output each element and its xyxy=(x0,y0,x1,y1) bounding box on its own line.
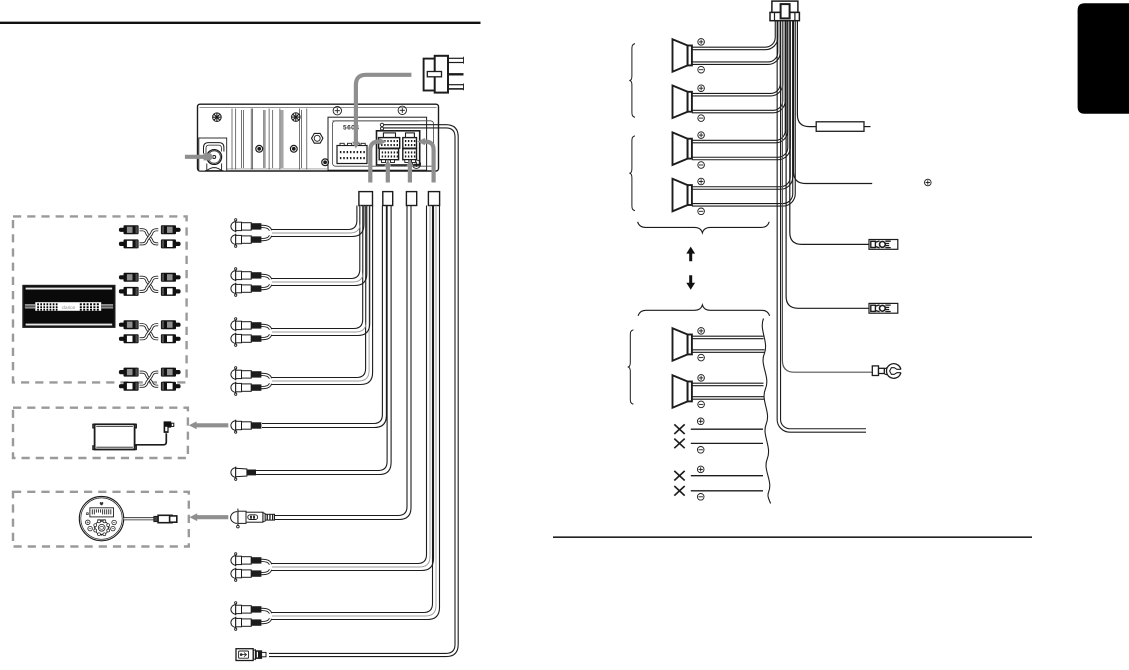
speaker 6 xyxy=(673,375,688,408)
RCA female jack 3b xyxy=(231,334,236,344)
torn-edge wavy line xyxy=(762,319,770,504)
RCA female pair 5 Y-split xyxy=(261,560,271,564)
marine remote connector xyxy=(231,512,238,524)
male RCA plug xyxy=(176,370,181,374)
harness connector shell xyxy=(772,1,798,12)
speaker 1 plus symbol xyxy=(698,39,705,46)
spade wire 2 xyxy=(786,21,869,309)
USB extension cable wire xyxy=(269,125,458,657)
interface adapter unit xyxy=(95,424,135,449)
speaker 3 minus symbol xyxy=(698,162,705,169)
speaker 4 plus symbol xyxy=(698,178,705,185)
speaker 6 (+) wire xyxy=(692,382,764,384)
gray power lead from top into ISO connector xyxy=(356,75,412,143)
speaker 5 (+) wire xyxy=(692,335,764,337)
speaker 4 (+) wire xyxy=(692,21,790,187)
cable connector block 1 xyxy=(359,192,373,206)
interface adapter right-angle plug xyxy=(164,421,172,433)
arrow into marine remote box xyxy=(197,515,228,519)
speaker 1 minus symbol xyxy=(698,66,705,73)
chassis screw C (round) xyxy=(256,145,263,152)
left connector feet xyxy=(382,160,386,163)
speaker 2 (+) wire xyxy=(692,21,780,94)
extension cable crossing wires xyxy=(140,325,159,339)
rear connector recess panel xyxy=(328,117,427,170)
RCA pair cable 1 wire xyxy=(271,206,357,230)
unused speaker wire 1 xyxy=(691,428,763,430)
panel screw 3 xyxy=(412,160,420,168)
marine remote side button 1 xyxy=(86,520,91,525)
unused speaker wire 3 xyxy=(691,475,763,477)
unused speaker wire 2 xyxy=(691,442,763,444)
X mark 2 xyxy=(674,439,684,449)
speaker 3 (-) wire xyxy=(692,21,788,158)
unterminated harness wire xyxy=(777,21,866,432)
male RCA plug xyxy=(176,323,181,327)
male RCA plug xyxy=(176,337,181,341)
RCA female jack 6b xyxy=(231,618,236,628)
RCA female jack 6a xyxy=(231,605,236,615)
amplifier front label band xyxy=(35,302,101,311)
panel screw 1 xyxy=(333,107,341,115)
svg-text:clarion: clarion xyxy=(62,305,76,310)
speaker 1 (+) wire xyxy=(692,21,775,47)
amplifier connector dots left xyxy=(37,303,39,305)
male RCA plug xyxy=(176,242,181,246)
speaker 4 xyxy=(673,179,688,212)
marine remote connector wire xyxy=(275,206,408,516)
speaker 2 xyxy=(673,86,688,119)
swap arrow down xyxy=(686,275,695,290)
male RCA plug xyxy=(119,242,124,246)
dashed box: interface adapter xyxy=(13,408,188,458)
RCA female jack 4b xyxy=(231,383,236,393)
unused wire symbol A plus xyxy=(697,418,704,425)
marine remote side button 2 xyxy=(88,526,93,531)
swap arrow up xyxy=(686,247,695,262)
gray lead 3 xyxy=(408,166,412,183)
male RCA plug xyxy=(176,228,181,232)
cable connector block 3 xyxy=(406,192,416,206)
cable connector block 4 xyxy=(428,192,439,206)
speaker 3 xyxy=(673,132,688,165)
speaker 3 (+) wire xyxy=(692,21,785,141)
RCA pair cable 2 center conductor line xyxy=(272,206,363,283)
speaker 3 plus symbol xyxy=(698,132,705,139)
RCA female jack 5b xyxy=(231,569,236,579)
fuse holder xyxy=(816,122,864,132)
dashed box: RCA cable kit xyxy=(13,216,187,382)
upper group underbrace xyxy=(638,222,770,233)
head unit inner top edge line xyxy=(200,107,437,109)
chassis screw A (star) xyxy=(213,113,222,122)
chassis hex nut xyxy=(312,133,323,143)
RCA female jack 5a xyxy=(231,556,236,566)
marine remote control body xyxy=(79,496,123,540)
speaker 6 minus symbol xyxy=(698,401,705,408)
left 10-pin connector on unit xyxy=(383,133,395,138)
RCA female jack 1a xyxy=(231,222,236,232)
harness connector latch tab xyxy=(781,4,790,18)
extension cable crossing wires xyxy=(140,230,159,244)
wired-remote mini plug wire xyxy=(256,206,388,471)
speaker 4 (-) wire xyxy=(692,21,793,204)
RCA pair cable 3 wire xyxy=(271,206,363,329)
RCA female jack 2b xyxy=(231,284,236,294)
dashed box: marine remote unit xyxy=(13,492,189,547)
spade terminal 1 xyxy=(869,240,898,250)
interface adapter cord xyxy=(135,433,167,445)
male RCA plug xyxy=(119,289,124,293)
speaker 5 (-) wire xyxy=(692,349,765,351)
extension cable crossing wires xyxy=(140,277,159,291)
male RCA plug xyxy=(119,384,124,388)
single RCA cable wire xyxy=(262,206,382,424)
main ISO 16-pin connector on unit xyxy=(337,146,367,164)
marine remote side button 4 xyxy=(111,526,116,531)
speaker 4 minus symbol xyxy=(698,208,705,215)
chassis heatsink fins xyxy=(231,109,233,170)
RCA female pair 6 Y-split xyxy=(261,609,271,613)
speaker 2 (-) wire xyxy=(692,21,783,111)
RCA pair cable 4 wire xyxy=(271,206,366,378)
right 10-pin connector on unit xyxy=(406,133,415,138)
brace speakers 1-2 xyxy=(629,44,635,118)
RCA female jack 3a xyxy=(231,321,236,331)
RCA pair cable 2 wire xyxy=(271,206,360,279)
amplifier left gray stub xyxy=(25,304,35,309)
RCA female jack 1b xyxy=(231,235,236,245)
USB extension cable terminal rings xyxy=(380,123,383,126)
gray lead 4 (to right connector) xyxy=(424,142,433,183)
right connector feet xyxy=(405,160,409,163)
speaker 5 minus symbol xyxy=(698,354,705,361)
antenna jack base xyxy=(205,164,223,171)
speaker 5 plus symbol xyxy=(698,328,705,335)
X mark 1 xyxy=(674,424,684,434)
RCA female pair 3 Y-split xyxy=(261,325,271,329)
speaker 6 (-) wire xyxy=(692,396,765,398)
marine remote cord connector xyxy=(154,516,158,521)
amplifier right gray stub xyxy=(101,304,113,309)
vehicle ISO connector (top) xyxy=(424,59,436,91)
brace speakers 5-6 xyxy=(628,330,634,404)
hideaway amplifier unit xyxy=(23,286,115,328)
fuse wire xyxy=(797,21,816,127)
RCA female jack 2a xyxy=(231,271,236,281)
speaker 1 (-) wire xyxy=(692,21,778,62)
RCA female jack 4a xyxy=(231,370,236,380)
male RCA plug xyxy=(119,370,124,374)
amplifier connector dots right xyxy=(80,303,82,305)
unused wire symbol B minus xyxy=(697,447,704,454)
spade terminal 2 xyxy=(869,303,898,313)
marine remote logo xyxy=(100,502,104,506)
unused wire symbol C plus xyxy=(697,466,704,473)
single RCA female jack xyxy=(231,421,236,431)
male RCA plug xyxy=(119,228,124,232)
speaker 1 xyxy=(673,39,688,71)
RCA pair cable 6 center conductor line xyxy=(272,206,436,617)
speaker 2 minus symbol xyxy=(698,115,705,122)
fuse wire stub xyxy=(864,126,871,128)
male RCA plug xyxy=(119,323,124,327)
gray lead 1 (to CeNET connector) xyxy=(370,142,379,183)
speaker 6 plus symbol xyxy=(698,375,705,382)
dual DIN connector frame xyxy=(377,131,420,165)
RCA pair cable 5 wire xyxy=(271,206,427,564)
head unit rear chassis xyxy=(198,104,439,171)
chassis screw E (phillips) xyxy=(322,159,329,166)
marine remote button pad xyxy=(95,521,109,535)
chassis screw B (star) xyxy=(292,113,301,122)
plus symbol near accessory wire xyxy=(925,179,932,186)
top rule line xyxy=(0,22,481,24)
RCA pair cable 6 wire xyxy=(271,206,433,613)
marine remote side button 3 xyxy=(112,520,117,525)
brace speakers 3-4 xyxy=(629,136,635,211)
RCA pair cable 5 center conductor line xyxy=(272,206,430,568)
accessory wire (+) xyxy=(794,21,873,184)
marine remote cord xyxy=(124,517,154,520)
male RCA plug xyxy=(176,289,181,293)
panel screw 2 xyxy=(398,106,406,114)
spade wire 1 xyxy=(790,21,869,245)
RCA female pair 4 Y-split xyxy=(261,374,271,378)
speaker 2 plus symbol xyxy=(698,85,705,92)
antenna lead arrow xyxy=(185,155,204,159)
RCA female pair 1 Y-split xyxy=(261,226,271,230)
antenna bracket handle xyxy=(204,143,224,154)
male RCA plug xyxy=(176,275,181,279)
marine remote small indicator xyxy=(87,513,89,515)
male RCA plug xyxy=(119,337,124,341)
extension cable crossing wires xyxy=(140,372,159,386)
marine remote label row xyxy=(97,518,106,521)
wired-remote mini plug xyxy=(231,468,236,478)
unused speaker wire 4 xyxy=(691,490,763,492)
RCA pair cable 1 center conductor line xyxy=(272,206,360,234)
marine remote LCD xyxy=(90,508,114,517)
male RCA plug xyxy=(176,384,181,388)
X mark 4 xyxy=(674,486,684,496)
USB connector xyxy=(236,649,253,661)
RCA pair cable 3 center conductor line xyxy=(272,206,366,333)
ground ring terminal xyxy=(872,366,878,376)
black page tab (top right) xyxy=(1078,3,1129,114)
RCA pair cable 4 center conductor line xyxy=(272,206,369,382)
lower group overbrace xyxy=(638,305,770,316)
RCA female pair 2 Y-split xyxy=(261,275,271,279)
gray lead 2 xyxy=(386,166,390,183)
ground ring wire xyxy=(782,21,872,373)
vehicle ISO connector pins xyxy=(448,57,464,59)
bottom divider line xyxy=(553,536,1032,538)
chassis screw D (round) xyxy=(290,145,297,152)
cable connector block 2 xyxy=(383,192,393,206)
X mark 3 xyxy=(674,471,684,481)
unused wire symbol D minus xyxy=(697,494,704,501)
male RCA plug xyxy=(119,275,124,279)
arrow into interface adapter box xyxy=(196,423,228,427)
antenna bracket panel xyxy=(199,138,227,171)
antenna jack xyxy=(207,150,222,165)
speaker 5 xyxy=(673,328,688,361)
